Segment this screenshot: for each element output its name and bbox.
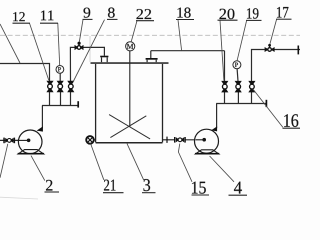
pump2 discharge arrow (37, 126, 43, 131)
leader 17 (270, 20, 277, 44)
wire r-riser3 upper (252, 50, 265, 82)
ball valve 8 (stack 3) (67, 81, 74, 93)
wire pump4 discharge (216, 104, 218, 129)
leader 16 (253, 89, 283, 128)
label 19 (247, 8, 258, 18)
label 16 (284, 114, 298, 127)
wire valve17 outlet (274, 49, 300, 51)
ball valve 11 (stack 2) (57, 81, 64, 93)
pump 4 (195, 126, 220, 153)
wire riser1 upper + left branch (0, 64, 50, 82)
leader lines (0, 20, 283, 182)
label 15 (192, 182, 206, 194)
faint bottom artifact (0, 197, 38, 199)
pressure gauge P right (233, 61, 241, 69)
leader 18 (178, 20, 182, 51)
wire r-riser3 lower (251, 92, 253, 104)
leader 12 (30, 23, 49, 80)
wire feed pipe left (0, 139, 29, 141)
wire recirc riser (224, 51, 226, 81)
label 20 (220, 9, 235, 19)
tank 3 lid (91, 62, 169, 64)
label 18 (178, 8, 191, 18)
tank 3 body (96, 64, 163, 143)
leader 2 (31, 156, 45, 181)
left nozzle on lid (100, 56, 108, 63)
leader 1 cut (0, 144, 8, 178)
leader 11 (58, 23, 60, 65)
valve 9 (actuated ball valve) (75, 42, 84, 50)
wire riser3 upper (70, 47, 74, 81)
ball valve 19 (right stack 2) (235, 81, 242, 93)
flange at right pipe end (297, 46, 299, 55)
wire right header (216, 103, 266, 105)
label 2 (46, 180, 52, 191)
wire valve15 to pump4 (185, 139, 204, 141)
valve 17 (actuated ball valve) (265, 44, 275, 52)
label 9 (84, 8, 91, 18)
faint page dashed line (0, 34, 300, 36)
pump 2 (18, 126, 45, 153)
leader cut label to feed branch (0, 24, 20, 63)
pressure gauge P left (56, 66, 64, 74)
agitator blades (109, 115, 150, 139)
flange T end of right header (265, 100, 267, 107)
wire recirc drop to nozzle (150, 51, 152, 59)
right nozzle on lid (146, 58, 158, 62)
label 17 (277, 7, 288, 18)
wire tank drain stub (93, 139, 95, 141)
ball valve 16 (right stack 3) (248, 81, 255, 93)
wire valve9 outlet to nozzle (83, 47, 104, 55)
valve 21 (tank drain) (86, 136, 94, 144)
leader 4 (210, 156, 234, 182)
wire recirc horizontal (151, 50, 225, 52)
wire riser1 lower (49, 92, 51, 105)
label 12 (13, 12, 25, 21)
wire gauge stem right (236, 69, 239, 82)
faint ghost vertical (89, 36, 91, 62)
ball valve 20 (right stack 1) (221, 81, 228, 93)
leader 9 (79, 20, 83, 42)
flange on tank outlet (166, 137, 168, 143)
leader 3 (127, 144, 144, 180)
label 21 (104, 180, 116, 191)
leader 15 (178, 144, 192, 182)
valve 15 (tank outlet ball valve) (174, 137, 186, 143)
label 8 (108, 8, 115, 18)
ball valve 12 (stack 1) (46, 81, 53, 93)
motor M 22 (126, 42, 135, 127)
label 4 (234, 182, 242, 194)
flange T end of left header (77, 101, 79, 107)
label 22 (137, 9, 152, 19)
wire r-riser1 lower (224, 92, 226, 104)
label 3 (144, 179, 151, 191)
wire left header (42, 105, 78, 107)
valve 1 (feed ball valve) (3, 138, 15, 144)
wire gauge stem left (59, 73, 61, 81)
leader 21 (91, 144, 104, 180)
label 11 (41, 11, 53, 21)
leader 22 (131, 21, 137, 42)
leader 19 (237, 21, 246, 61)
wire riser2 lower (60, 92, 62, 105)
pump4 discharge arrow (211, 126, 217, 131)
wire riser3 lower (70, 92, 72, 105)
leader 8 (73, 20, 105, 82)
wire pump2 discharge (41, 106, 43, 129)
wire tank outlet right (163, 139, 175, 141)
wire r-riser2 lower (237, 92, 239, 104)
leader 20 (220, 20, 224, 80)
